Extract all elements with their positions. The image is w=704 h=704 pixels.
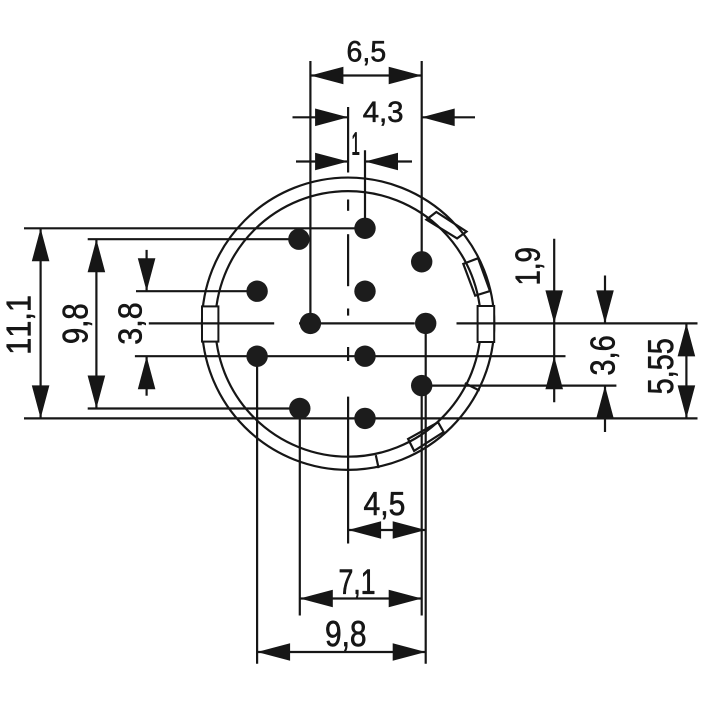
dimension 3,8 left [118,250,155,396]
keyway notch right (3 o'clock) [478,306,495,342]
pin 1 [354,218,375,239]
pin 7 [415,313,436,334]
coding tab lower-right 3 [408,422,444,451]
wire: center row line middle [299,322,415,324]
wire: extension line row P10 (3,6 bottom) [422,385,617,387]
centerline vertical solid top [347,107,349,173]
pin 6 [300,313,321,334]
pin 10 [411,375,432,396]
pin 11 [289,398,310,419]
wire: center row line left [149,322,274,324]
ring division line at 78deg [376,455,379,468]
dimension 4,5 bottom [348,492,426,539]
centerline vertical dashed [347,200,349,211]
dimension 1,9 right [515,239,563,402]
pin 3 [411,251,432,272]
dimension 9,8 left [63,239,106,408]
connector inner circle [215,191,481,457]
centerline vertical solid bottom [347,397,349,544]
wire: extension line row P11 (9,8 bottom) [88,407,300,409]
wire: extension line row P8/P9 (3,8 bottom, 1,9 bottom) [135,355,566,357]
wire: center row line right [457,322,698,324]
dimension 5,55 right [648,323,695,418]
wire: extension column P3 (6,5/4,3 right) [421,61,423,262]
wire: extension line row P12 (11,1 bottom, 5,55 bottom) [24,417,698,419]
pin 9 [354,346,375,367]
pin 8 [246,346,267,367]
wire: extension line row P2 (9,8 top) [88,238,299,240]
wire: extension column P10 down (7,1 right) [421,386,423,616]
dimension 3,6 right [590,276,619,433]
dimension 6,5 top [310,41,421,84]
connector outer circle [202,178,494,470]
wire: extension line row P1 (11,1 top) [24,227,365,229]
wire: extension line row P4 (3,8 top) [136,290,257,292]
wire: extension column P1 (1 right) [364,150,366,228]
pin 2 [288,229,309,250]
pin 4 [246,281,267,302]
wire: extension column P6 (6,5 left) [309,61,311,323]
pin 5 [354,281,375,302]
wire: extension column P11 down (7,1 left) [299,409,301,616]
ring division line at 27deg [465,383,480,391]
pin 12 [354,408,375,429]
wire: extension column P7 down (4,5 / 9,8 right) [425,323,427,663]
dimension 11,1 left [7,228,50,418]
keyway notch left (9 o'clock) [202,306,218,341]
dimension 1 top [296,132,412,170]
wire: extension column P8 down (9,8 bottom left) [256,356,258,664]
dimension 4,3 top [293,101,476,126]
dimension 7,1 bottom [300,569,422,607]
dimension 9,8 bottom [257,621,426,661]
coding tab upper-right 2 [463,258,490,296]
coding tab upper-right 1 [426,212,466,238]
